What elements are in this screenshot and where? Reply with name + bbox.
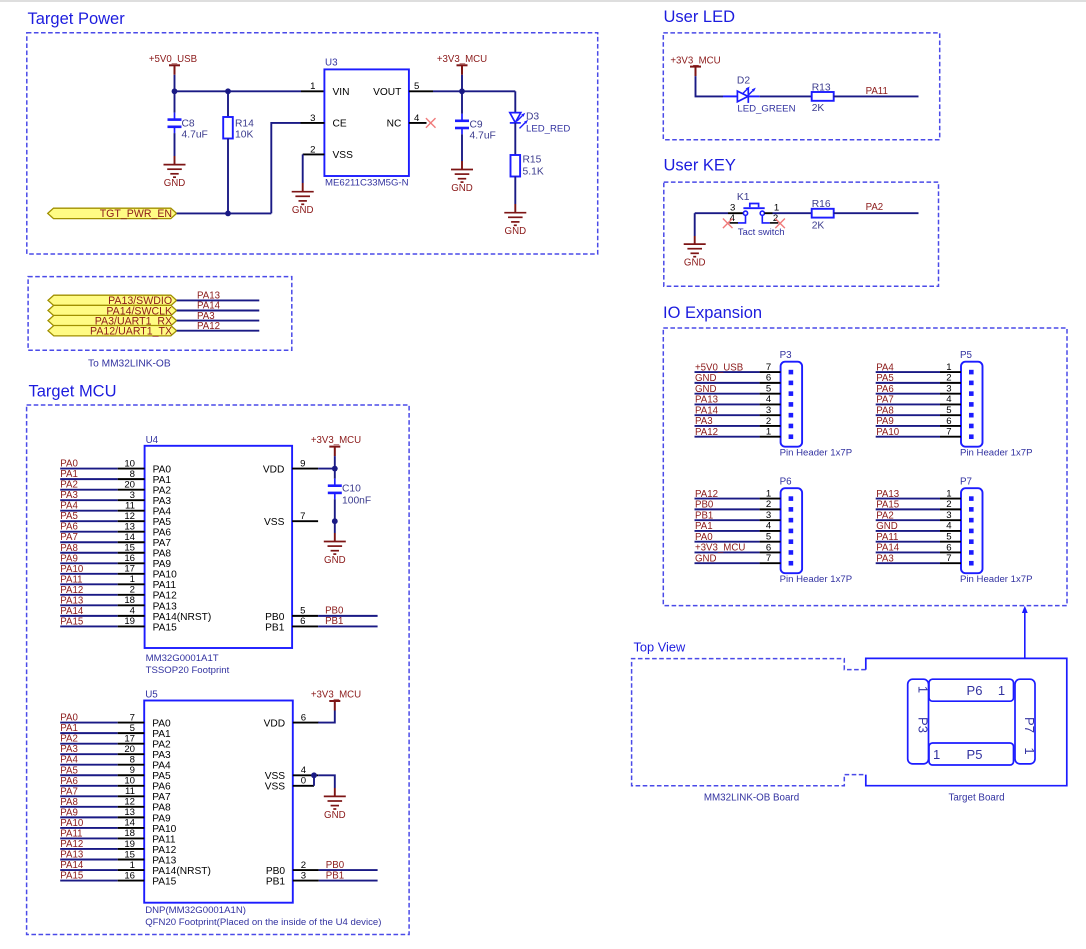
U5 pin 15 PA13 wire and label: [60, 849, 176, 866]
P5 pin 7 PA10: [876, 427, 974, 440]
voltage regulator U3 body: [324, 69, 409, 176]
svg-text:GND: GND: [451, 183, 473, 194]
svg-text:PA2: PA2: [866, 202, 884, 213]
svg-text:12: 12: [124, 797, 135, 808]
led D3 LED_RED: [510, 113, 521, 123]
svg-text:PA14: PA14: [695, 405, 719, 416]
svg-text:7: 7: [946, 553, 951, 564]
U4 pin 7 VSS: [264, 511, 318, 528]
junction U5 VSS: [311, 772, 317, 778]
svg-text:PA11: PA11: [153, 580, 177, 591]
svg-text:PA5: PA5: [153, 517, 172, 528]
wire rail to C9: [461, 91, 463, 114]
U4 pin 5 PB0: [265, 606, 377, 623]
svg-text:Target Board: Target Board: [948, 792, 1004, 803]
pin stub U3 pin1: [301, 90, 324, 92]
U4 pin 2 PA12 wire and label: [60, 585, 177, 602]
wire R16 to PA2: [834, 212, 919, 214]
wire PA13: [177, 299, 260, 301]
P5 pin 4 PA7: [876, 394, 974, 407]
wire rail to C8: [174, 91, 176, 112]
svg-text:R15: R15: [523, 154, 542, 165]
svg-text:1: 1: [766, 427, 771, 438]
capacitor C10 100nF: [328, 486, 342, 493]
U5 pin 16 PA15 wire and label: [60, 870, 176, 887]
svg-text:+3V3_MCU: +3V3_MCU: [311, 690, 361, 701]
svg-text:PA11: PA11: [876, 532, 898, 543]
junction at R14: [225, 88, 231, 94]
wire VSS0 up to VSS4: [313, 775, 315, 786]
svg-text:GND: GND: [695, 373, 717, 384]
wire PA3: [177, 320, 260, 322]
svg-text:PA7: PA7: [876, 395, 894, 406]
svg-text:+3V3_MCU: +3V3_MCU: [437, 54, 487, 65]
svg-text:PA7: PA7: [60, 532, 78, 543]
svg-text:2: 2: [130, 585, 135, 596]
svg-text:PA1: PA1: [60, 723, 78, 734]
P6 pin 5 PA0: [695, 531, 794, 544]
svg-text:4: 4: [766, 521, 772, 532]
svg-text:1: 1: [310, 81, 315, 92]
svg-text:PA13: PA13: [153, 601, 177, 612]
wire GND to switch: [695, 212, 728, 214]
svg-text:7: 7: [766, 553, 771, 564]
svg-text:PA7: PA7: [60, 786, 78, 797]
svg-text:PA12: PA12: [197, 321, 220, 332]
junction at C9: [459, 88, 465, 94]
svg-text:10: 10: [124, 458, 135, 469]
svg-text:P6: P6: [967, 683, 983, 698]
svg-text:To MM32LINK-OB: To MM32LINK-OB: [88, 359, 171, 370]
U4 pin 20 PA2 wire and label: [60, 479, 171, 496]
svg-text:1: 1: [130, 860, 135, 871]
svg-text:VIN: VIN: [333, 87, 350, 98]
svg-text:Pin Header 1x7P: Pin Header 1x7P: [960, 574, 1033, 585]
svg-text:VDD: VDD: [263, 465, 285, 476]
wire VDD rail to C10: [334, 469, 336, 479]
svg-text:PA9: PA9: [153, 559, 172, 570]
ground GND key: [684, 244, 706, 257]
svg-text:8: 8: [130, 469, 135, 480]
svg-text:17: 17: [124, 564, 135, 575]
svg-text:PB0: PB0: [266, 866, 286, 877]
svg-text:PA9: PA9: [152, 813, 171, 824]
svg-text:PA1: PA1: [60, 469, 78, 480]
net flag PA13/SWDIO: [48, 295, 177, 305]
wire to LED D3: [514, 91, 516, 112]
svg-text:PA15: PA15: [876, 500, 899, 511]
svg-text:PB1: PB1: [266, 876, 286, 887]
svg-text:PA15: PA15: [153, 622, 177, 633]
junction R14 TGT rail: [225, 211, 231, 217]
wire GND branch: [694, 213, 696, 236]
wire +5V0_USB to main rail: [174, 75, 176, 92]
Target Board outline: [866, 658, 1067, 785]
svg-text:PA0: PA0: [60, 713, 78, 724]
svg-text:PA14(NRST): PA14(NRST): [152, 866, 211, 877]
connector P5 body: [961, 362, 983, 447]
svg-text:Pin Header 1x7P: Pin Header 1x7P: [780, 448, 853, 459]
U5 pin 11 PA7 wire and label: [60, 786, 171, 803]
svg-text:1: 1: [766, 488, 771, 499]
svg-text:PA6: PA6: [60, 522, 78, 533]
svg-text:Pin Header 1x7P: Pin Header 1x7P: [960, 448, 1033, 459]
svg-text:PA10: PA10: [60, 564, 84, 575]
wire PA12: [177, 330, 260, 332]
svg-text:+3V3_MCU: +3V3_MCU: [670, 55, 720, 66]
U4 pin 12 PA5 wire and label: [60, 511, 171, 528]
svg-text:PA12: PA12: [695, 489, 718, 500]
svg-text:5: 5: [300, 606, 305, 617]
wire +3V3 down to LED: [696, 76, 724, 96]
svg-text:PA9: PA9: [60, 553, 78, 564]
svg-text:+5V0_USB: +5V0_USB: [149, 54, 197, 65]
svg-text:PA11: PA11: [866, 86, 888, 97]
svg-text:GND: GND: [695, 384, 717, 395]
svg-text:2: 2: [946, 499, 951, 510]
svg-text:PA10: PA10: [60, 818, 84, 829]
svg-text:PA13: PA13: [876, 489, 899, 500]
svg-text:PA6: PA6: [152, 782, 171, 793]
MM32LINK-OB board outline dashed: [632, 659, 866, 786]
U4 pin 11 PA4 wire and label: [60, 500, 171, 517]
svg-text:5: 5: [946, 405, 951, 416]
svg-text:10: 10: [124, 776, 135, 787]
svg-text:3: 3: [946, 383, 951, 394]
svg-text:PA0: PA0: [695, 532, 713, 543]
P7 pin 3 PA2: [876, 510, 974, 523]
P7 pin 6 PA14: [876, 542, 974, 555]
svg-text:P6: P6: [780, 477, 793, 488]
switch K1 Tact switch: [743, 204, 764, 216]
svg-text:PA3: PA3: [695, 416, 713, 427]
U5 pin 8 PA4 wire and label: [60, 755, 171, 772]
section border To MM32LINK-OB: [28, 277, 292, 351]
svg-text:1: 1: [1022, 747, 1037, 754]
P3 pin 5 GND: [695, 383, 794, 396]
resistor R14 10K: [223, 117, 233, 139]
svg-text:PA14: PA14: [60, 606, 84, 617]
U3 VOUT pin stub: [409, 90, 433, 92]
power net +3V3_MCU: [457, 65, 468, 75]
svg-text:13: 13: [124, 522, 135, 533]
svg-text:4.7uF: 4.7uF: [182, 130, 208, 141]
junction at C8: [172, 88, 178, 94]
wire R14 to TGT_PWR_EN rail: [227, 139, 229, 214]
svg-text:20: 20: [124, 744, 135, 755]
P3 pin 4 PA13: [695, 394, 794, 407]
svg-text:VSS: VSS: [265, 782, 286, 793]
U5 pin 10 PA6 wire and label: [60, 776, 171, 793]
svg-text:11: 11: [125, 786, 135, 797]
svg-text:6: 6: [946, 542, 951, 553]
svg-text:PB1: PB1: [265, 622, 285, 633]
svg-text:U3: U3: [325, 58, 338, 69]
wire PA14: [177, 310, 260, 312]
svg-text:PA15: PA15: [60, 871, 83, 882]
svg-text:8: 8: [130, 755, 135, 766]
svg-text:MM32G0001A1T: MM32G0001A1T: [146, 653, 219, 664]
svg-text:2: 2: [766, 499, 771, 510]
svg-text:+5V0_USB: +5V0_USB: [695, 362, 743, 373]
svg-text:PA12: PA12: [695, 427, 718, 438]
svg-text:PA10: PA10: [153, 570, 177, 581]
svg-text:PA7: PA7: [152, 792, 171, 803]
P5 pin 1 PA4: [876, 362, 974, 375]
svg-text:PA3: PA3: [60, 490, 78, 501]
K1 pin 2 stub with X: [762, 213, 778, 224]
svg-text:QFN20 Footprint(Placed on the: QFN20 Footprint(Placed on the inside of …: [145, 917, 381, 928]
no-connect X on NC: [426, 118, 436, 128]
connector P3 body: [781, 362, 803, 447]
svg-text:10K: 10K: [235, 129, 253, 140]
svg-text:PA0: PA0: [152, 719, 171, 730]
svg-text:VSS: VSS: [333, 150, 354, 161]
junction U4 VSS: [332, 518, 338, 524]
svg-text:Target Power: Target Power: [28, 10, 126, 28]
svg-text:C8: C8: [182, 119, 195, 130]
svg-text:9: 9: [300, 458, 305, 469]
svg-text:16: 16: [124, 553, 135, 564]
svg-text:4: 4: [130, 606, 136, 617]
P5 pin 3 PA6: [876, 383, 974, 396]
svg-text:6: 6: [300, 616, 305, 627]
svg-text:14: 14: [124, 532, 135, 543]
svg-text:P5: P5: [967, 747, 983, 762]
svg-text:C10: C10: [342, 484, 361, 495]
power net +3V3_MCU User LED: [690, 67, 701, 77]
svg-text:DNP(MM32G0001A1N): DNP(MM32G0001A1N): [145, 905, 246, 916]
svg-text:3: 3: [766, 405, 771, 416]
U5 pin 9 PA5 wire and label: [60, 765, 171, 782]
P7 pin 7 PA3: [876, 553, 974, 565]
svg-text:PA6: PA6: [60, 776, 78, 787]
U4 pin 4 PA14 wire and label: [60, 606, 211, 623]
svg-text:13: 13: [124, 807, 135, 818]
svg-text:12: 12: [124, 511, 135, 522]
U4 pin 18 PA13 wire and label: [60, 595, 177, 612]
U5 pin 3 PB1: [266, 870, 378, 887]
svg-text:U5: U5: [145, 690, 158, 701]
net flag TGT_PWR_EN: [48, 208, 177, 218]
svg-text:MM32LINK-OB Board: MM32LINK-OB Board: [704, 792, 799, 803]
wire C8 to GND: [174, 133, 176, 156]
svg-text:19: 19: [124, 839, 135, 850]
top view connector P3: [908, 679, 929, 764]
svg-text:VSS: VSS: [265, 771, 286, 782]
svg-text:+3V3_MCU: +3V3_MCU: [311, 435, 361, 446]
svg-text:PA7: PA7: [153, 538, 172, 549]
wire VSS to GND: [302, 154, 304, 183]
top view connector P5: [929, 743, 1014, 765]
U5 pin 12 PA8 wire and label: [60, 797, 171, 814]
svg-text:4: 4: [766, 394, 772, 405]
svg-text:PB1: PB1: [695, 510, 713, 521]
net flag PA14/SWCLK: [48, 305, 177, 315]
U4 pin 14 PA7 wire and label: [60, 532, 171, 549]
svg-text:PA2: PA2: [153, 486, 172, 497]
svg-text:2K: 2K: [812, 221, 825, 232]
svg-text:User KEY: User KEY: [664, 156, 736, 174]
U5 pin 19 PA12 wire and label: [60, 839, 176, 856]
connector P7 body: [961, 488, 983, 573]
svg-text:User LED: User LED: [664, 8, 736, 26]
U5 VSS pin 0: [265, 776, 314, 793]
svg-text:0: 0: [301, 776, 306, 787]
ground GND C8: [164, 165, 186, 178]
svg-text:9: 9: [130, 765, 135, 776]
svg-text:PA5: PA5: [60, 511, 78, 522]
svg-text:1: 1: [774, 202, 779, 213]
U4 pin 19 PA15 wire and label: [60, 616, 177, 633]
P3 pin 3 PA14: [695, 405, 794, 418]
svg-text:PA8: PA8: [60, 543, 78, 554]
U5 pin 2 PB0: [266, 860, 378, 877]
P3 pin 2 PA3: [695, 416, 794, 429]
svg-text:17: 17: [124, 733, 135, 744]
ground GND U3 VSS: [292, 192, 314, 205]
U4 pin 13 PA6 wire and label: [60, 522, 171, 539]
wire VOUT to +3V3_MCU rail: [433, 90, 462, 92]
P6 pin 6 +3V3_MCU: [695, 542, 794, 555]
section border User LED: [663, 33, 939, 140]
svg-text:R13: R13: [812, 82, 831, 93]
resistor R15 5.1K: [511, 155, 521, 177]
svg-text:100nF: 100nF: [342, 496, 371, 507]
svg-text:PA12: PA12: [152, 845, 176, 856]
svg-text:U4: U4: [146, 435, 159, 446]
svg-text:Pin Header 1x7P: Pin Header 1x7P: [780, 574, 853, 585]
svg-text:PA1: PA1: [152, 729, 171, 740]
svg-text:PA15: PA15: [60, 616, 83, 627]
ground GND U5: [324, 796, 346, 809]
svg-text:6: 6: [301, 712, 306, 723]
svg-text:PA12: PA12: [153, 591, 177, 602]
U5 pin 6 VDD: [264, 712, 319, 729]
U5 pin 20 PA3 wire and label: [60, 744, 171, 761]
wire CE from TGT_PWR_EN: [271, 123, 300, 213]
svg-text:2: 2: [301, 860, 306, 871]
svg-text:PA2: PA2: [60, 480, 78, 491]
svg-text:PA13: PA13: [695, 395, 718, 406]
svg-text:PA0: PA0: [153, 465, 172, 476]
svg-text:1: 1: [933, 747, 940, 762]
wire K1 to R16: [764, 212, 772, 214]
svg-text:2: 2: [946, 373, 951, 384]
U4 pin 6 PB1: [265, 616, 377, 633]
wire VSS to GND: [334, 521, 336, 533]
svg-text:PA3: PA3: [153, 496, 172, 507]
U5 pin 17 PA2 wire and label: [60, 733, 171, 750]
svg-text:PA2: PA2: [152, 740, 171, 751]
svg-text:PA3: PA3: [152, 750, 171, 761]
svg-text:Tact switch: Tact switch: [738, 227, 785, 238]
svg-text:IO Expansion: IO Expansion: [663, 304, 762, 322]
svg-text:PB0: PB0: [265, 612, 285, 623]
led D2 LED_GREEN: [723, 95, 738, 97]
P3 pin 6 GND: [695, 373, 794, 386]
svg-text:16: 16: [124, 870, 135, 881]
connector P6 body: [781, 488, 803, 573]
svg-text:PA1: PA1: [695, 521, 713, 532]
U5 VDD wire to +3V3_MCU: [318, 711, 335, 723]
svg-text:18: 18: [124, 828, 135, 839]
svg-text:GND: GND: [684, 258, 706, 269]
wire D2 to R13: [748, 95, 759, 97]
wire +3V3_MCU bar to rail: [461, 75, 463, 92]
svg-text:6: 6: [946, 416, 951, 427]
svg-text:PB0: PB0: [695, 500, 714, 511]
P6 pin 3 PB1: [695, 510, 794, 523]
svg-text:PA14(NRST): PA14(NRST): [153, 612, 212, 623]
svg-text:3: 3: [730, 202, 735, 213]
svg-text:PA5: PA5: [152, 771, 171, 782]
section border User KEY: [664, 182, 939, 286]
svg-text:R14: R14: [235, 118, 254, 129]
svg-text:20: 20: [124, 479, 135, 490]
svg-text:7: 7: [946, 427, 951, 438]
svg-text:1: 1: [130, 574, 135, 585]
svg-text:PA13: PA13: [60, 595, 83, 606]
svg-text:4: 4: [946, 521, 952, 532]
svg-text:PA15: PA15: [152, 876, 176, 887]
wire TGT_PWR_EN: [177, 212, 272, 214]
svg-text:2: 2: [766, 416, 771, 427]
svg-text:PA4: PA4: [153, 507, 172, 518]
svg-text:15: 15: [124, 849, 135, 860]
svg-text:K1: K1: [737, 192, 750, 203]
svg-text:PA9: PA9: [60, 807, 78, 818]
svg-text:PA11: PA11: [60, 574, 82, 585]
svg-text:PA5: PA5: [60, 765, 78, 776]
svg-text:CE: CE: [333, 119, 347, 130]
ground GND C9: [451, 170, 473, 183]
top view connector P7: [1015, 679, 1035, 764]
svg-text:PA9: PA9: [876, 416, 894, 427]
svg-text:1: 1: [946, 488, 951, 499]
power net +3V3_MCU at U4: [329, 447, 340, 457]
svg-text:R16: R16: [812, 199, 831, 210]
svg-text:2K: 2K: [812, 103, 825, 114]
wire main rail VIN: [175, 90, 302, 92]
svg-text:VSS: VSS: [264, 517, 285, 528]
page top border line: [0, 0, 1086, 2]
svg-text:PA8: PA8: [60, 797, 78, 808]
svg-text:4.7uF: 4.7uF: [470, 131, 496, 142]
arrow from Target Board to IO Expansion: [1024, 609, 1026, 659]
svg-text:3: 3: [946, 510, 951, 521]
ground GND R15: [504, 213, 526, 226]
P6 pin 4 PA1: [695, 521, 794, 533]
svg-text:+3V3_MCU: +3V3_MCU: [695, 543, 745, 554]
U4 pin 10 PA0 wire and label: [60, 458, 171, 475]
svg-text:5: 5: [766, 531, 771, 542]
svg-text:LED_GREEN: LED_GREEN: [737, 104, 795, 115]
svg-text:5: 5: [946, 531, 951, 542]
svg-text:18: 18: [124, 595, 135, 606]
svg-text:PA4: PA4: [60, 755, 78, 766]
wire rail right to LED branch: [462, 90, 515, 92]
svg-text:PA11: PA11: [152, 834, 176, 845]
section border Target Power: [27, 33, 598, 254]
svg-text:1: 1: [946, 362, 951, 373]
U3 NC pin stub: [409, 122, 427, 124]
svg-text:ME6211C33M5G-N: ME6211C33M5G-N: [325, 178, 409, 189]
U5 pin 1 PA14 wire and label: [60, 860, 211, 877]
U5 pin 7 PA0 wire and label: [60, 712, 171, 729]
resistor R16 2K: [812, 209, 834, 218]
U4 pin 16 PA9 wire and label: [60, 553, 171, 570]
